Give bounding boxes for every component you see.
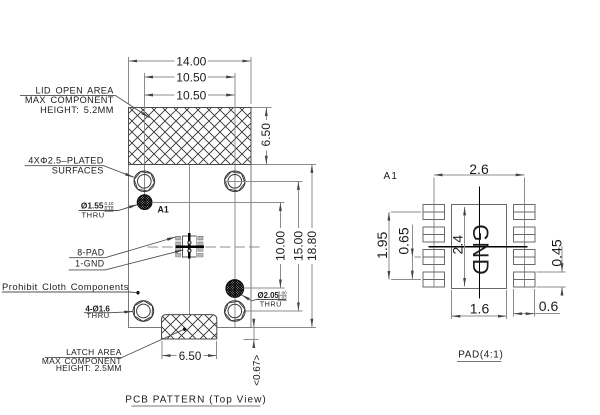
svg-text:Prohibit Cloth Components: Prohibit Cloth Components xyxy=(2,281,129,292)
detail pads left column xyxy=(423,205,444,287)
svg-text:PCB PATTERN (Top View): PCB PATTERN (Top View) xyxy=(125,395,266,406)
svg-text:HEIGHT: 5.2MM: HEIGHT: 5.2MM xyxy=(40,105,114,115)
svg-text:Ø2.05: Ø2.05 xyxy=(258,291,280,300)
svg-text:18.80: 18.80 xyxy=(305,231,319,261)
dim 1.95 xyxy=(374,212,421,280)
dim 15.00 xyxy=(292,181,306,311)
footprint crosshair xyxy=(176,233,204,259)
dim 0.45 xyxy=(537,239,566,293)
detail crosshair xyxy=(429,186,528,298)
dim 10.50 lower xyxy=(144,89,234,103)
footprint gnd pad rect xyxy=(182,236,196,257)
svg-text:1.95: 1.95 xyxy=(374,231,390,258)
svg-text:LID OPEN AREA: LID OPEN AREA xyxy=(35,85,114,95)
dim 10.00 xyxy=(274,202,288,288)
dim 0.65 xyxy=(396,224,421,279)
detail pads right column xyxy=(514,205,535,287)
svg-text:0.6: 0.6 xyxy=(539,298,559,314)
svg-text:6.50: 6.50 xyxy=(179,350,202,363)
title PAD(4:1) xyxy=(457,349,503,361)
ext line bottom holes for 15.00 xyxy=(245,310,302,312)
svg-text:1-GND: 1-GND xyxy=(75,259,104,269)
label dia 1.55 thru xyxy=(79,200,138,219)
ext line pcb top for 18.80 xyxy=(252,163,316,165)
extension lines 10.50 through hatch xyxy=(144,73,234,164)
hole bottom-right xyxy=(220,296,249,325)
hole top-right xyxy=(225,171,246,192)
svg-text:0.65: 0.65 xyxy=(396,227,412,254)
label lid open area xyxy=(20,85,149,117)
LEFT-DRAWING xyxy=(125,55,319,406)
label A1 xyxy=(158,204,169,214)
dim 6.50 lid height xyxy=(252,108,274,165)
svg-text:SURFACES: SURFACES xyxy=(52,165,104,175)
ext line pcb bottom for 18.80 xyxy=(252,326,316,328)
footprint pads right column xyxy=(198,236,203,257)
label 4x2.5 plated surfaces xyxy=(25,156,134,178)
title PCB PATTERN xyxy=(125,395,266,406)
LEFT-LABELS xyxy=(2,85,287,373)
svg-text:2.6: 2.6 xyxy=(469,161,489,177)
dim 2.6 xyxy=(434,161,524,177)
ext line top holes for 15.00 xyxy=(224,180,302,182)
svg-text:10.50: 10.50 xyxy=(176,89,206,103)
hole bottom-left xyxy=(130,298,157,325)
svg-text:A1: A1 xyxy=(158,204,169,214)
svg-text:15.00: 15.00 xyxy=(292,231,306,261)
svg-text:10.00: 10.00 xyxy=(274,231,288,261)
dim 0.67 latch overhang xyxy=(244,321,264,386)
svg-text:1.6: 1.6 xyxy=(470,300,490,316)
label 1-GND xyxy=(69,250,184,270)
label latch area xyxy=(42,327,186,373)
RIGHT-DETAIL xyxy=(374,161,565,361)
ext line A1 for 10.00 xyxy=(152,201,285,203)
svg-text:14.00: 14.00 xyxy=(176,55,206,69)
centerline horizontal dashed through footprint xyxy=(148,246,264,248)
svg-text:THRU: THRU xyxy=(82,210,105,219)
pad column centerline right xyxy=(523,178,525,287)
label prohibit cloth components xyxy=(2,281,140,295)
GND text xyxy=(468,224,493,275)
label A1 detail xyxy=(384,171,399,182)
label dia 2.05 thru xyxy=(242,291,288,309)
label 8-PAD xyxy=(69,237,176,258)
dim 0.6 xyxy=(514,289,560,317)
dim 14.00 xyxy=(129,55,251,104)
dim 18.80 xyxy=(305,164,319,327)
svg-text:A1: A1 xyxy=(384,171,399,182)
ext line hole 2.05 for 10.00 xyxy=(244,287,285,289)
centerline right holes xyxy=(234,73,236,327)
svg-text:THRU: THRU xyxy=(260,300,282,309)
footprint pin marks xyxy=(188,241,191,252)
svg-text:8-PAD: 8-PAD xyxy=(77,248,104,258)
fiducial A1 filled circle xyxy=(137,195,152,210)
svg-text:6.50: 6.50 xyxy=(259,123,273,147)
svg-text:2.4: 2.4 xyxy=(450,235,466,255)
svg-text:4XΦ2.5–PLATED: 4XΦ2.5–PLATED xyxy=(28,156,103,166)
pcb outline xyxy=(129,108,252,328)
pad column centerline left xyxy=(433,178,435,287)
dim 1.6 xyxy=(452,290,507,319)
dim 6.50 latch width xyxy=(162,341,217,363)
dim 2.4 xyxy=(450,207,466,287)
svg-text:Ø1.55: Ø1.55 xyxy=(81,200,104,210)
svg-text:GND: GND xyxy=(468,224,493,275)
lid open area hatch xyxy=(129,108,251,165)
svg-text:HEIGHT: 2.5MM: HEIGHT: 2.5MM xyxy=(56,363,122,373)
dim 10.50 upper xyxy=(144,71,234,85)
centerline left holes xyxy=(143,73,145,201)
centerline vertical part axis xyxy=(188,150,190,338)
hole top-left xyxy=(134,171,155,192)
detail gnd pad rect xyxy=(452,205,507,289)
footprint pads left column xyxy=(176,236,181,257)
label 4-dia1.6 thru xyxy=(84,304,133,320)
svg-text:PAD(4:1): PAD(4:1) xyxy=(458,349,503,360)
svg-text:<0.67>: <0.67> xyxy=(252,355,263,386)
svg-text:10.50: 10.50 xyxy=(176,71,206,85)
hole 2.05 filled circle xyxy=(226,280,244,298)
svg-text:MAX COMPONENT: MAX COMPONENT xyxy=(25,95,114,105)
latch area hatch xyxy=(162,315,217,339)
svg-text:0.45: 0.45 xyxy=(549,239,565,266)
